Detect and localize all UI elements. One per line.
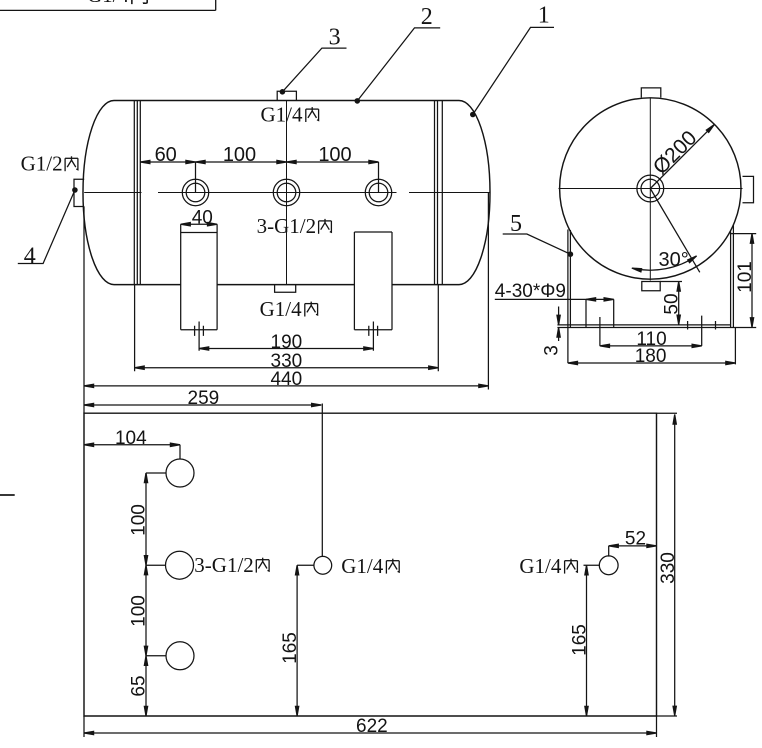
tank right head <box>459 101 490 285</box>
dimension 100 (left) <box>196 144 287 166</box>
label G1/2(f) left <box>21 152 63 176</box>
tank shell bottom line <box>114 284 459 286</box>
dimension 101 <box>731 234 757 328</box>
horizontal center line <box>84 192 489 194</box>
bracket left wall <box>568 230 571 328</box>
tank left head <box>83 100 114 284</box>
hole middle-left <box>166 551 194 579</box>
dimension 165 right <box>569 565 600 716</box>
dimension leader D200 <box>649 123 716 188</box>
leader 3 <box>280 25 347 95</box>
end view top port stub <box>641 88 661 98</box>
svg-text:165: 165 <box>280 632 301 664</box>
dimension 3 <box>542 307 563 356</box>
left weld seam lines <box>134 101 140 285</box>
right mounting leg <box>354 232 392 330</box>
svg-text:50: 50 <box>662 293 683 314</box>
end view center port circles <box>637 175 664 202</box>
end view crosshair <box>559 98 743 281</box>
svg-text:330: 330 <box>658 552 679 584</box>
dimension 50 <box>660 282 682 325</box>
svg-text:4-30*Φ9: 4-30*Φ9 <box>495 281 566 302</box>
svg-text:5: 5 <box>510 211 522 237</box>
dimension 440 <box>84 193 488 414</box>
dimension 104 <box>84 428 180 459</box>
dimension 52 <box>609 528 657 556</box>
dimension 180 <box>568 328 736 368</box>
svg-text:4: 4 <box>24 243 36 269</box>
dimension 100 lower <box>128 565 149 656</box>
svg-text:3: 3 <box>542 345 563 356</box>
svg-text:G1/4: G1/4 <box>341 554 384 578</box>
left port G1/2 stub <box>74 179 84 206</box>
svg-text:Ø200: Ø200 <box>649 126 702 179</box>
right leg hole tick marks <box>369 326 378 336</box>
bottom port G1/4 stub <box>275 285 296 293</box>
30 degree radius line <box>650 189 700 273</box>
title block border <box>0 0 216 10</box>
label G1/4(f) top <box>261 102 304 126</box>
svg-text:40: 40 <box>192 207 213 228</box>
dimension 330 (bottom view) <box>657 413 679 716</box>
label 4-30*phi9 with leader <box>495 281 614 302</box>
svg-text:G1/4: G1/4 <box>261 102 304 126</box>
svg-text:G1/4内: G1/4内 <box>87 0 150 7</box>
left holes dimension chain line <box>146 473 166 716</box>
left mounting leg <box>181 224 217 330</box>
bracket bottom plate <box>557 325 756 328</box>
label G1/4(f) right <box>519 554 562 578</box>
svg-text:104: 104 <box>115 428 147 449</box>
title block clipped text <box>87 0 150 7</box>
svg-text:3-G1/2: 3-G1/2 <box>257 214 317 238</box>
svg-text:G1/4: G1/4 <box>260 297 303 321</box>
svg-text:30°: 30° <box>659 249 689 271</box>
leader 5 <box>503 211 574 257</box>
leader 2 <box>355 4 441 104</box>
port circle C <box>365 179 391 205</box>
svg-text:100: 100 <box>318 144 351 166</box>
dimension 622 <box>84 716 657 737</box>
hole right G1/4 <box>599 556 618 575</box>
vertical center line through ports <box>286 101 288 285</box>
right weld seam lines <box>435 101 443 285</box>
dimension 110 <box>600 316 702 351</box>
end view bottom port stub <box>642 282 660 291</box>
top port G1/4 stub <box>277 91 296 100</box>
svg-text:2: 2 <box>421 4 433 30</box>
page edge mark at left <box>0 494 15 496</box>
svg-text:190: 190 <box>271 332 303 353</box>
dimension 190 <box>199 322 373 353</box>
port circle A <box>182 179 208 205</box>
svg-text:180: 180 <box>635 346 667 367</box>
bracket right wall <box>731 225 734 328</box>
svg-text:G1/4: G1/4 <box>519 554 562 578</box>
svg-text:3-G1/2: 3-G1/2 <box>194 553 254 577</box>
svg-text:100: 100 <box>128 595 149 627</box>
leader 1 <box>470 3 554 118</box>
bracket left slot end lines <box>586 299 614 327</box>
hole bottom-left <box>166 642 194 670</box>
label 3-G1/2(f) <box>257 214 317 238</box>
svg-text:622: 622 <box>356 716 388 737</box>
bottom view plate rectangle <box>84 413 657 716</box>
bracket right slot ticks <box>688 321 716 330</box>
leader 4 <box>18 187 78 269</box>
svg-text:440: 440 <box>270 369 302 390</box>
svg-text:165: 165 <box>569 624 590 656</box>
dimension 100 upper <box>128 473 149 565</box>
dimension 60 <box>140 144 195 193</box>
svg-text:G1/2: G1/2 <box>21 152 63 176</box>
dimension 330 (side view) <box>135 285 439 372</box>
svg-text:3: 3 <box>329 25 341 51</box>
dimension 100 (right) <box>287 144 379 193</box>
tank shell top line <box>114 100 459 102</box>
svg-text:60: 60 <box>155 144 177 166</box>
svg-text:259: 259 <box>188 388 220 409</box>
dimension 40 <box>181 207 217 228</box>
end view shell circle <box>560 98 741 279</box>
hole center G1/4 <box>314 556 332 574</box>
svg-text:65: 65 <box>129 675 150 696</box>
dimension 65 <box>129 656 150 716</box>
svg-text:100: 100 <box>223 144 256 166</box>
hole top-left <box>166 459 194 487</box>
label G1/4(f) center <box>341 554 384 578</box>
svg-text:100: 100 <box>128 504 149 536</box>
label 3-G1/2(f) bottom view <box>194 553 254 577</box>
svg-text:1: 1 <box>538 3 550 29</box>
label G1/4(f) bottom <box>260 297 303 321</box>
port circle B <box>273 179 299 205</box>
30 degree arc <box>632 249 698 272</box>
svg-text:52: 52 <box>625 528 646 549</box>
left leg hole tick marks <box>195 326 204 336</box>
end view right port stub <box>743 176 754 202</box>
svg-text:101: 101 <box>735 261 756 293</box>
dimension 259 <box>84 388 322 556</box>
dimension 165 left <box>280 565 314 716</box>
